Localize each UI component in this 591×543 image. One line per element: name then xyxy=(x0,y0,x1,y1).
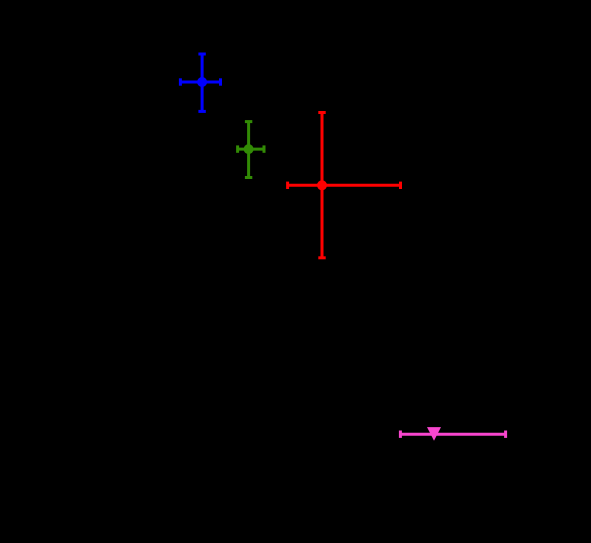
bottom cap xyxy=(198,110,205,113)
top cap xyxy=(318,111,325,114)
data point 3 (red circle with x/y error bars) xyxy=(288,113,401,258)
x error bar xyxy=(400,433,505,436)
bottom cap xyxy=(245,176,252,179)
marker: green filled circle xyxy=(244,144,254,154)
right cap xyxy=(504,431,507,438)
left cap xyxy=(286,182,289,189)
y error bar xyxy=(321,113,324,258)
data point 1 (blue circle with x/y error bars) xyxy=(180,54,220,111)
y error bar xyxy=(247,122,250,178)
x error bar xyxy=(288,184,401,187)
right cap xyxy=(399,182,402,189)
bottom cap xyxy=(318,256,325,259)
top cap xyxy=(245,120,252,123)
left cap xyxy=(179,78,182,85)
marker: red filled circle xyxy=(317,180,327,190)
top cap xyxy=(198,53,205,56)
data point 2 (green circle with x/y error bars) xyxy=(238,122,264,178)
data point 4 (pink down-triangle with x error bar) xyxy=(400,431,505,438)
left cap xyxy=(399,431,402,438)
y error bar xyxy=(201,54,204,111)
left cap xyxy=(236,145,239,152)
right cap xyxy=(263,145,266,152)
right cap xyxy=(219,78,222,85)
marker: blue filled circle xyxy=(197,77,207,87)
x error bar xyxy=(238,148,264,151)
marker: pink filled down triangle xyxy=(427,427,441,441)
x error bar xyxy=(180,81,220,84)
